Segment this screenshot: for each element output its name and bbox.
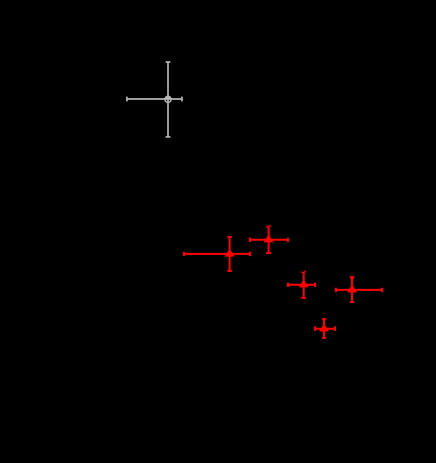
R5 y error bar top cap (322, 318, 326, 320)
R5 triangle marker (320, 324, 328, 331)
R2 y error bar top cap (tilted v shape) (266, 225, 271, 228)
R3 triangle marker (300, 280, 308, 287)
R2 y error bar (268, 226, 270, 253)
R4 y error bar top cap (350, 276, 354, 279)
R3 y error bar top cap (tilted v shape) (301, 271, 306, 274)
R1 x error bar right cap (249, 252, 251, 256)
R2 x error bar (250, 239, 288, 241)
R4 x error bar right cap (381, 288, 383, 292)
G1 x error bar right cap (181, 97, 183, 102)
R2 y error bar bottom cap (266, 252, 271, 254)
R3 x error bar (288, 284, 315, 286)
R1 y error bar top cap (227, 236, 231, 238)
G1 x error bar (127, 98, 182, 100)
data point G1 (gray, open circle marker with error bars) (127, 62, 182, 137)
R4 x error bar left cap (335, 288, 337, 292)
R5 y error bar bottom cap (322, 337, 326, 339)
data point R3 (red triangle with error bars) (288, 272, 315, 298)
R1 x error bar left cap (183, 252, 185, 256)
data point R4 (red triangle with error bars) (336, 276, 382, 302)
G1 y error bar (167, 62, 169, 137)
red data series (184, 226, 382, 338)
R1 y error bar (229, 237, 231, 271)
R1 x error bar (184, 253, 250, 255)
R5 y error bar (323, 319, 325, 338)
R3 x error bar right cap (314, 283, 316, 287)
R4 x error bar (336, 289, 382, 291)
R3 x error bar left cap (287, 283, 289, 287)
R2 triangle marker (265, 235, 273, 242)
G1 y error bar bottom cap (166, 136, 171, 138)
R4 y error bar bottom cap (350, 301, 354, 303)
G1 marker top half fill (164, 95, 171, 99)
R1 triangle marker (226, 249, 234, 256)
data point R1 (red triangle with error bars) (184, 237, 250, 271)
R4 y error bar (351, 277, 353, 302)
G1 open-circle marker (ring) (165, 96, 171, 102)
G1 y error bar top cap (166, 61, 171, 63)
R2 x error bar right cap (287, 238, 289, 242)
data point R2 (red triangle with error bars) (250, 226, 288, 253)
R3 y error bar (303, 272, 305, 298)
R5 x error bar (315, 328, 335, 330)
R1 y error bar bottom cap (227, 270, 231, 272)
R5 x error bar right cap (334, 326, 336, 331)
R5 x error bar left cap (314, 326, 316, 331)
G1 x error bar left cap (126, 97, 128, 102)
R3 y error bar bottom cap (301, 297, 306, 299)
data point R5 (red triangle with error bars) (315, 319, 335, 338)
R4 triangle marker (348, 285, 356, 292)
R2 x error bar left cap (249, 238, 251, 242)
